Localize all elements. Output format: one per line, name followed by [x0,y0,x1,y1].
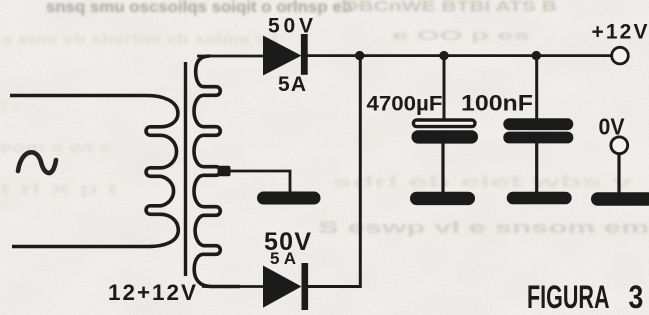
center tap square [218,166,231,176]
capacitor C2 plate 1 [503,118,573,130]
svg-text:4700µF: 4700µF [367,92,443,116]
diode D1 [263,36,302,76]
svg-text:0V: 0V [599,114,626,140]
diode D1 cathode bar [301,34,308,75]
transformer secondary winding [194,56,240,287]
wire: primary top lead [10,94,149,97]
wire: D2 to rail [308,57,360,287]
node: D2 feed junction [355,51,364,60]
wire: center tap to ground [224,171,290,193]
svg-text:5A: 5A [270,249,296,268]
capacitor C1 4700uF lead top [443,56,446,119]
svg-text:100nF: 100nF [461,91,533,116]
capacitor C2 lead bottom [535,143,538,193]
ground bar (0V) [591,192,649,205]
ground bar (C1) [410,192,475,205]
wire: secondary top to diode D1 [197,55,263,58]
wire: +12V rail [307,54,612,57]
transformer primary winding [10,96,178,247]
wire: secondary bottom to diode D2 [202,285,263,288]
capacitor C1 positive plate (open) [413,120,475,127]
svg-text:t rl X p t: t rl X p t [0,181,118,198]
capacitor C2 plate 2 [503,132,573,144]
ground bar (C2) [507,192,572,205]
terminal 0V [611,137,628,154]
capacitor C1 negative plate [412,130,479,143]
svg-text:S eswp vl e snsom em: S eswp vl e snsom em [318,218,649,237]
wire: 0V terminal to ground [617,153,620,193]
svg-text:X c: X c [0,98,20,114]
capacitor C1 lead bottom [441,143,444,193]
svg-text:eom s wt e: eom s wt e [0,139,112,155]
AC source symbol [18,152,56,173]
svg-text:FIGURA: FIGURA [527,279,610,315]
svg-text:sdrl eb elet wbs v: sdrl eb elet wbs v [332,174,632,191]
node: 100nF junction [532,51,541,60]
svg-text:3: 3 [629,279,644,315]
diode D2 cathode bar [302,263,309,310]
svg-text:e OO p es: e OO p es [392,27,530,43]
terminal +12V [612,47,629,64]
ground bar (center tap) [257,192,321,205]
svg-text:5A: 5A [278,73,306,96]
capacitor C2 100nF lead top [535,56,538,120]
svg-text:+12V: +12V [592,21,648,44]
diode D2 [263,266,302,308]
node: 4700uF junction [439,51,448,60]
wire: primary bottom lead [12,245,152,248]
svg-text:s etne eb sbsrtne eb sidme sd: s etne eb sbsrtne eb sidme sd [2,31,278,48]
svg-text:OBCnWE BTBI ATS B: OBCnWE BTBI ATS B [342,0,557,15]
transformer core [184,62,187,276]
